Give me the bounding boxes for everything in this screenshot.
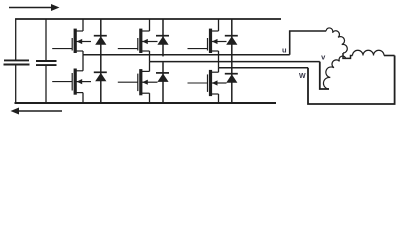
transistor Q1 (leg 1 high-side MOSFET) xyxy=(52,19,91,55)
transistor Q3 (leg 3 high-side MOSFET) xyxy=(188,19,227,68)
wire: winding W to right-side wire xyxy=(384,55,395,57)
inductor: motor winding U (arc coil) xyxy=(326,28,347,53)
current flow arrow (top, pointing right) xyxy=(9,4,60,11)
diode D5L (leg 2 low-side freewheel) xyxy=(156,73,169,82)
diode D6L (leg 3 low-side freewheel) xyxy=(225,74,238,83)
transistor Q6 (leg 3 low-side MOSFET) xyxy=(188,68,227,103)
inductor: motor winding W (horizontal coil) xyxy=(353,50,385,55)
wire: star point jog xyxy=(343,53,353,58)
three-phase inverter with DC link and motor windings xyxy=(0,0,399,120)
wire: DC- bottom bus xyxy=(15,102,277,104)
wire: phase W output to motor xyxy=(308,56,395,105)
transistor Q5 (leg 2 low-side MOSFET) xyxy=(118,62,158,103)
diode D4L (leg 1 low-side freewheel) xyxy=(94,72,107,81)
wire: phase U node (leg1 midpoint rail) xyxy=(83,54,290,56)
diode D3H (leg 3 high-side freewheel) + vertical lead xyxy=(225,19,238,103)
transistor Q4 (leg 1 low-side MOSFET) xyxy=(52,55,91,103)
capacitor C2 (DC-link, right) xyxy=(36,19,57,104)
inductor: motor winding V (arc coil) xyxy=(323,56,346,89)
transistor Q2 (leg 2 high-side MOSFET) xyxy=(118,19,158,62)
svg-text:v: v xyxy=(321,53,326,62)
wire: phase W node (leg3 midpoint rail) xyxy=(219,67,309,69)
svg-text:u: u xyxy=(282,45,287,54)
diode D2H (leg 2 high-side freewheel) + vertical lead xyxy=(156,19,169,103)
current flow arrow (bottom, pointing left) xyxy=(11,108,63,115)
wire: phase U output to motor xyxy=(290,31,327,55)
wire: phase V node (leg2 midpoint rail) xyxy=(150,61,320,63)
capacitor C1 (DC-link, left) xyxy=(4,19,30,104)
diode D1H (leg 1 high-side freewheel) + vertical lead xyxy=(94,19,107,103)
wire: phase V output to motor xyxy=(320,62,329,89)
wire: DC+ top bus xyxy=(15,18,281,20)
svg-text:W: W xyxy=(299,73,306,80)
